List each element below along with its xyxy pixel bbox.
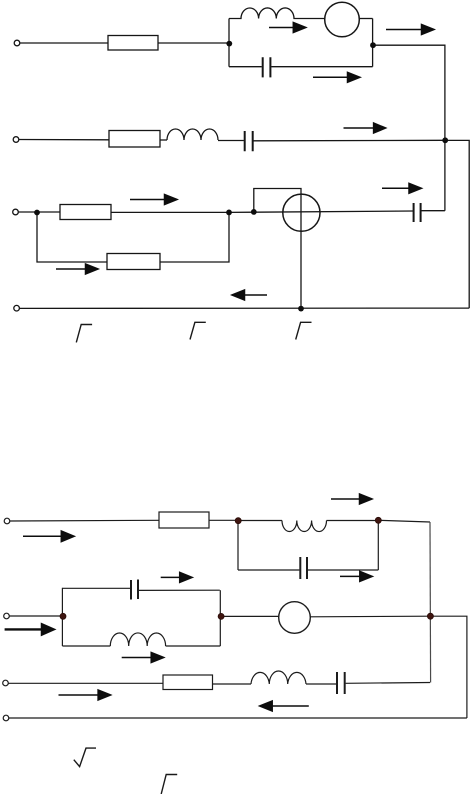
capacitor C4: [300, 557, 307, 579]
inductor L5: [251, 671, 306, 684]
wire loop1 left: [228, 19, 230, 67]
wire: [221, 615, 279, 617]
terminal T4: [14, 305, 20, 311]
wire: [18, 211, 60, 213]
terminal T5: [4, 518, 10, 524]
wire loop2 bottom: [238, 569, 378, 571]
wire: [160, 139, 167, 141]
wire: [359, 18, 372, 20]
wire right link: [431, 616, 467, 718]
wire: [20, 42, 108, 44]
wire loop1 right: [372, 19, 374, 67]
capacitor C6: [337, 672, 345, 694]
wire lower branch: [37, 213, 107, 263]
arrow above loop2: [331, 498, 361, 500]
wire: [10, 519, 159, 522]
wire bottom rail 2: [9, 717, 467, 719]
inductor L4: [110, 633, 165, 646]
wire loop1 bottom: [229, 66, 373, 68]
wire: [213, 683, 252, 685]
node F1: [251, 209, 257, 215]
wire: [218, 140, 244, 142]
wire: [8, 682, 163, 684]
label sqrt: [74, 748, 96, 767]
wire loop3 left: [61, 588, 63, 646]
resistor R3: [60, 205, 111, 220]
terminal T6: [4, 613, 10, 619]
wire: [111, 211, 229, 213]
wire right link: [446, 140, 470, 308]
wire: [421, 210, 445, 212]
node E1: [226, 210, 232, 216]
node A2: [235, 518, 241, 524]
terminal T3: [13, 209, 19, 215]
arrow branch3 lower: [56, 268, 87, 270]
wire: [346, 682, 430, 685]
wire: [229, 211, 413, 212]
arrow bottom rail left: [243, 294, 267, 296]
label G2: [190, 322, 206, 339]
node A1: [226, 41, 232, 47]
arrow branch3 top: [130, 199, 166, 201]
wire: [310, 615, 430, 618]
wire loop2 top: [238, 520, 378, 522]
capacitor C2: [245, 131, 253, 151]
wire loop2 right: [377, 520, 379, 570]
label G4: [161, 775, 177, 794]
wire: [19, 139, 109, 141]
arrow current loop1 top: [269, 27, 295, 29]
arrow below loop2: [340, 575, 361, 577]
label G1: [76, 325, 92, 343]
wire bottom rail: [20, 307, 470, 309]
wire: [209, 519, 238, 521]
inductor L2: [167, 129, 218, 140]
wire: [306, 683, 336, 685]
wire long vertical: [429, 522, 432, 683]
terminal T1: [14, 40, 20, 46]
arrow branch5 input: [23, 535, 63, 537]
arrow above loop3: [161, 576, 181, 578]
node C2: [60, 613, 66, 619]
arrow bottom rail 2 left: [271, 705, 309, 707]
terminal T8: [3, 715, 9, 721]
wire: [160, 213, 229, 262]
terminal T2: [13, 137, 19, 143]
capacitor C1: [263, 57, 271, 77]
arrow branch2: [344, 127, 376, 129]
source U2: [283, 194, 320, 231]
resistor R6: [163, 675, 213, 690]
node D1: [34, 210, 40, 216]
node B1: [370, 42, 376, 48]
node G1: [298, 306, 304, 312]
resistor R1: [108, 36, 158, 51]
inductor L1: [229, 8, 325, 19]
node C1: [442, 137, 448, 143]
wire loop3 top: [62, 588, 219, 590]
wire: [254, 139, 446, 142]
wire output branch1: [373, 45, 445, 211]
node E2: [427, 613, 433, 619]
capacitor C5: [131, 580, 138, 600]
label G3: [296, 322, 312, 339]
wire loop3 right: [219, 590, 221, 646]
wire loop3 bottom: [62, 645, 220, 647]
terminal T7: [3, 680, 9, 686]
resistor R5: [159, 512, 209, 528]
inductor L3: [282, 521, 327, 532]
arrow below loop1: [313, 76, 349, 78]
wire loop2 left: [237, 521, 239, 571]
source U3: [279, 602, 311, 634]
resistor R2: [109, 131, 160, 148]
wire: [9, 615, 62, 617]
wire to vertical: [378, 520, 430, 522]
capacitor C3: [414, 203, 421, 222]
resistor R4: [107, 254, 160, 270]
node B2: [375, 517, 381, 523]
node D2: [218, 613, 224, 619]
arrow branch3 right: [382, 187, 411, 189]
meter U1: [325, 2, 360, 37]
wire: [158, 42, 229, 44]
arrow branch6 input bold: [5, 628, 43, 630]
arrow branch7 input: [59, 694, 100, 696]
wire bypass: [254, 189, 301, 309]
arrow output branch1: [386, 29, 423, 31]
arrow below loop3: [122, 657, 153, 659]
